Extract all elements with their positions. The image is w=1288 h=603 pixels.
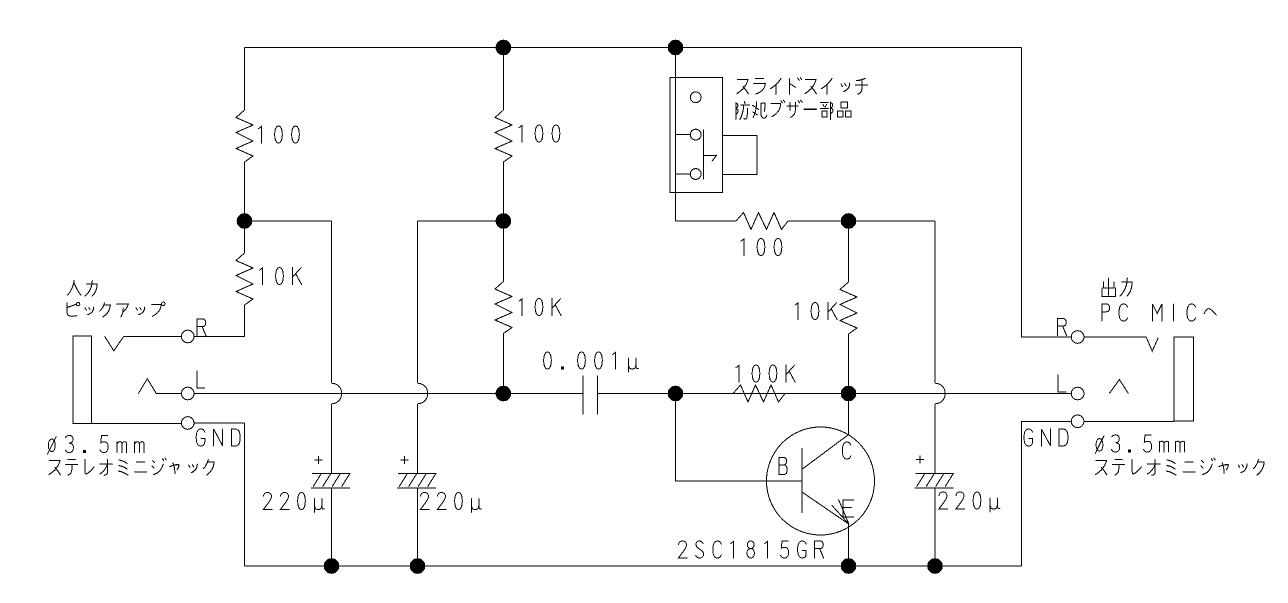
label ステレオミニジャック (right) (1096, 458, 1265, 475)
label 入力 (input) (68, 280, 98, 296)
label 100K (base resistor) (736, 365, 795, 382)
wire R terminal to tip contact (right) (1084, 336, 1146, 338)
label E (emitter) (843, 500, 854, 517)
ring contact chevron (left jack) (138, 379, 156, 394)
plus sign C1 (314, 456, 322, 464)
label φ3.5mm (left) (48, 436, 145, 455)
wire hop over L line (branch 3) (935, 383, 945, 404)
wire R terminal left to rail (194, 336, 245, 338)
wire tip to R terminal (left) (124, 336, 182, 338)
junction dot left rail row2 (237, 213, 253, 229)
terminal circle R (left jack) (181, 330, 194, 343)
wire emitter to bottom rail (848, 524, 850, 566)
wire L line left section (194, 393, 583, 395)
junction dot L line at collector branch (841, 386, 857, 402)
slide switch SW1 body (670, 78, 723, 193)
junction dot top rail at switch branch (668, 40, 684, 56)
terminal circle L (right jack) (1071, 387, 1084, 400)
wire junction row mid to second cap branch (418, 220, 504, 222)
label 220u (cap 3) (939, 492, 1000, 512)
wire bottom ground rail (245, 565, 1022, 567)
terminal circle R (right jack) (1071, 331, 1084, 344)
label φ3.5mm (right) (1095, 435, 1185, 454)
capacitor 220u C3 (electrolytic, hatched plate) (915, 473, 954, 488)
slide switch pin 2 (690, 129, 701, 140)
wire hop over L line (branch 1) (332, 383, 342, 404)
wire L line mid section (598, 393, 1072, 395)
label 0.001u (coupling cap) (544, 352, 639, 372)
wire top supply rail (245, 47, 1022, 49)
junction dot mid rail row2 (496, 213, 512, 229)
label ピックアップ (pickup) (67, 302, 165, 317)
junction dot bottom rail cap2 (410, 558, 426, 574)
label ステレオミニジャック (left) (49, 458, 214, 475)
label R (right) (1058, 319, 1067, 336)
junction dot L line at base branch (668, 386, 684, 402)
label B (base) (779, 458, 787, 475)
wire ring to L terminal (left) (156, 393, 181, 395)
wire GND right to bottom rail (1022, 421, 1072, 566)
tip contact chevron (right jack) (1146, 337, 1158, 351)
label 10K (middle resistor) (519, 299, 561, 316)
label 100 (middle resistor) (519, 125, 560, 142)
label 防犯ブザー部品 (security buzzer part) (736, 100, 851, 119)
transistor Q1 2SC1815GR body circle (767, 427, 875, 535)
resistor 100 (left, vertical) (236, 110, 253, 162)
label 100 (switch branch resistor) (741, 239, 782, 256)
junction dot L line at mid rail (496, 386, 512, 402)
wire cap branch 2 upper (417, 221, 419, 383)
slide switch pin 1 (690, 92, 701, 103)
wire junction row left to first cap branch (245, 220, 332, 222)
resistor 100 (middle, vertical) (495, 110, 512, 162)
wire cap branch 2 lower (417, 404, 419, 566)
wire GND right to jack body (1084, 420, 1174, 422)
wire switch drop from top rail (675, 48, 677, 222)
wire left rail upper segment (244, 48, 246, 111)
wire mid rail between resistors (502, 162, 504, 282)
capacitor 220u C2 (electrolytic, hatched plate) (397, 473, 436, 488)
right jack body (1174, 337, 1193, 421)
wire GND left terminal to drop (194, 422, 245, 424)
plus sign C3 (916, 456, 924, 464)
transistor base bar (801, 448, 803, 513)
wire base branch (676, 394, 803, 482)
wire switch to resistor (676, 220, 737, 222)
capacitor 220u C1 (electrolytic, hatched plate) (311, 473, 350, 488)
label C (collector) (842, 442, 851, 459)
resistor 10K (left, vertical) (236, 253, 253, 305)
slide switch pin 3 (690, 169, 701, 180)
label 2SC1815GR (transistor type) (678, 541, 823, 558)
wire 10K drop from junction (848, 221, 850, 282)
label PC MICへ (to PC MIC) (1102, 304, 1217, 321)
left jack body (73, 336, 92, 423)
label 100 (left resistor) (259, 126, 300, 143)
ring contact chevron (right jack) (1109, 380, 1128, 394)
wire cap branch 3 lower (934, 404, 936, 566)
wire cap branch 3 upper (934, 221, 936, 383)
resistor 100 (switch branch, horizontal) (736, 213, 788, 230)
label 出力 (output) (1102, 278, 1132, 296)
label R (left) (197, 319, 206, 336)
wire GND left drop (244, 423, 246, 566)
slide switch actuator tab (723, 135, 758, 174)
wire right rail (top to R terminal) (1022, 48, 1072, 338)
junction dot bottom rail cap3 (927, 558, 943, 574)
label 220u (cap 2) (420, 493, 481, 513)
wire mid rail to L line (502, 334, 504, 394)
resistor 10K (right, vertical) (840, 282, 857, 334)
wire jog to pin 3 (676, 173, 691, 175)
wire jog to pin 2 (676, 134, 691, 136)
wire resistor to corner at x935 (788, 220, 935, 222)
resistor 100K (horizontal) (733, 385, 785, 402)
resistor 10K (middle, vertical) (495, 282, 512, 334)
wire left rail to R terminal (194, 305, 244, 337)
transistor emitter lead with arrow (803, 492, 850, 524)
label L (right) (1058, 375, 1066, 392)
junction dot top rail at mid branch (496, 40, 512, 56)
junction dot switch branch row2 (841, 213, 857, 229)
capacitor 0.001u (film) plates (583, 376, 598, 415)
tip contact chevron (left jack) (105, 336, 124, 351)
slide switch contact bar (703, 129, 705, 179)
plus sign C2 (401, 456, 409, 464)
label 10K (left resistor) (260, 268, 302, 285)
terminal circle L (left jack) (181, 387, 194, 400)
wire 10K to L line junction (848, 334, 850, 394)
wire hop over L line (branch 2) (418, 383, 428, 404)
label 10K (right resistor) (795, 303, 837, 320)
junction dot bottom rail emitter (841, 558, 857, 574)
terminal circle GND (left jack) (181, 417, 194, 430)
transistor collector lead (803, 394, 849, 469)
label L (left) (197, 371, 205, 388)
wire left rail mid segment (244, 162, 246, 253)
wire cap branch 1 upper (331, 221, 333, 383)
wire cap branch 1 lower (331, 404, 333, 566)
label 220u (cap 1) (263, 493, 324, 513)
label GND (left) (196, 429, 240, 446)
label スライドスイッチ (slide switch) (737, 78, 868, 95)
label GND (right) (1024, 429, 1068, 446)
wire jack sleeve to GND terminal (left) (73, 422, 181, 424)
junction dot bottom rail cap1 (324, 558, 340, 574)
slide switch contact arrow (704, 155, 717, 162)
terminal circle GND (right jack) (1071, 415, 1084, 428)
wire mid rail upper segment (502, 48, 504, 111)
